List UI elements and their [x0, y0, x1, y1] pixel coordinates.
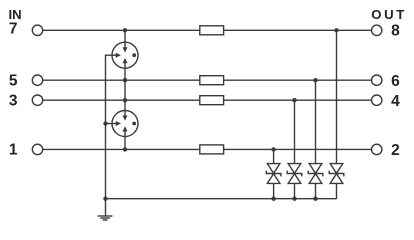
- terminal 1: [32, 144, 42, 154]
- svg-text:3: 3: [9, 92, 18, 109]
- terminal 5: [32, 75, 42, 85]
- wire TVS vertical from line 6: [315, 80, 317, 199]
- junction ground wire/GDT2 electrode: [103, 121, 107, 125]
- junction line6/TVS: [313, 78, 317, 82]
- wire TVS vertical from line 8: [336, 30, 338, 198]
- junction line2/TVS: [271, 147, 275, 151]
- wire GDT vertical line7 to GDT1: [124, 30, 126, 42]
- terminal 4: [372, 95, 382, 105]
- junction bus/D2: [292, 197, 296, 201]
- TVS diode D3: [308, 164, 323, 184]
- svg-text:8: 8: [391, 23, 400, 40]
- wire ground vertical: [106, 55, 113, 216]
- junction line4/TVS: [292, 98, 296, 102]
- junction bus/D3: [313, 197, 317, 201]
- svg-text:2: 2: [391, 142, 400, 159]
- wire GDT2 to line 1: [124, 137, 126, 150]
- junction ground wire/bus: [103, 197, 107, 201]
- svg-text:OUT: OUT: [371, 7, 407, 22]
- junction line5/GDT1: [123, 78, 127, 82]
- junction bus/D1: [271, 197, 275, 201]
- svg-text:5: 5: [9, 72, 18, 89]
- wire line 5 to line 3: [124, 80, 126, 100]
- terminal 2: [372, 144, 382, 154]
- terminal 6: [372, 75, 382, 85]
- wire GDT2 left electrode: [106, 123, 113, 125]
- junction line3/GDT2: [123, 98, 127, 102]
- svg-text:4: 4: [391, 93, 400, 110]
- wire TVS vertical from line 4: [294, 100, 296, 199]
- wire line 7-8: [43, 29, 372, 31]
- junction line8/TVS: [334, 28, 338, 32]
- wire ground bus: [106, 198, 337, 200]
- svg-text:6: 6: [391, 73, 400, 90]
- junction line7/GDT1: [123, 28, 127, 32]
- svg-text:7: 7: [9, 20, 18, 37]
- wire line 3-4: [43, 99, 372, 101]
- wire line 3 to GDT2: [124, 100, 126, 110]
- ground: [98, 216, 113, 220]
- gas discharge tube F1: [112, 42, 138, 68]
- terminal 7: [32, 25, 42, 35]
- gas discharge tube F2: [112, 111, 138, 137]
- svg-text:1: 1: [9, 142, 18, 159]
- terminal 3: [32, 95, 42, 105]
- junction line1/GDT2: [123, 147, 127, 151]
- TVS diode D2: [287, 164, 302, 184]
- terminal 8: [372, 25, 382, 35]
- wire GDT1 to line 5: [124, 68, 126, 80]
- resistor R4: [200, 145, 224, 154]
- resistor R1: [200, 26, 224, 35]
- wire TVS vertical from line 2: [273, 149, 275, 198]
- TVS diode D4: [329, 164, 344, 184]
- TVS diode D1: [266, 164, 281, 184]
- resistor R3: [200, 96, 224, 105]
- wire line 1-2: [43, 148, 372, 150]
- wire line 5-6: [43, 79, 372, 81]
- resistor R2: [200, 76, 224, 85]
